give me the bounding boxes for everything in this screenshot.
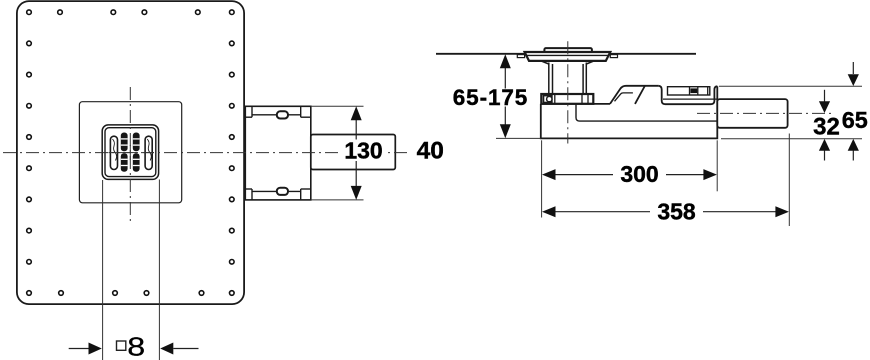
svg-text:358: 358: [657, 198, 696, 224]
svg-text:300: 300: [620, 161, 658, 187]
svg-text:65-175: 65-175: [453, 85, 528, 110]
svg-text:8: 8: [127, 332, 145, 360]
svg-text:65: 65: [842, 107, 868, 133]
svg-text:40: 40: [417, 138, 444, 165]
svg-text:130: 130: [344, 137, 382, 163]
svg-text:32: 32: [813, 114, 840, 141]
